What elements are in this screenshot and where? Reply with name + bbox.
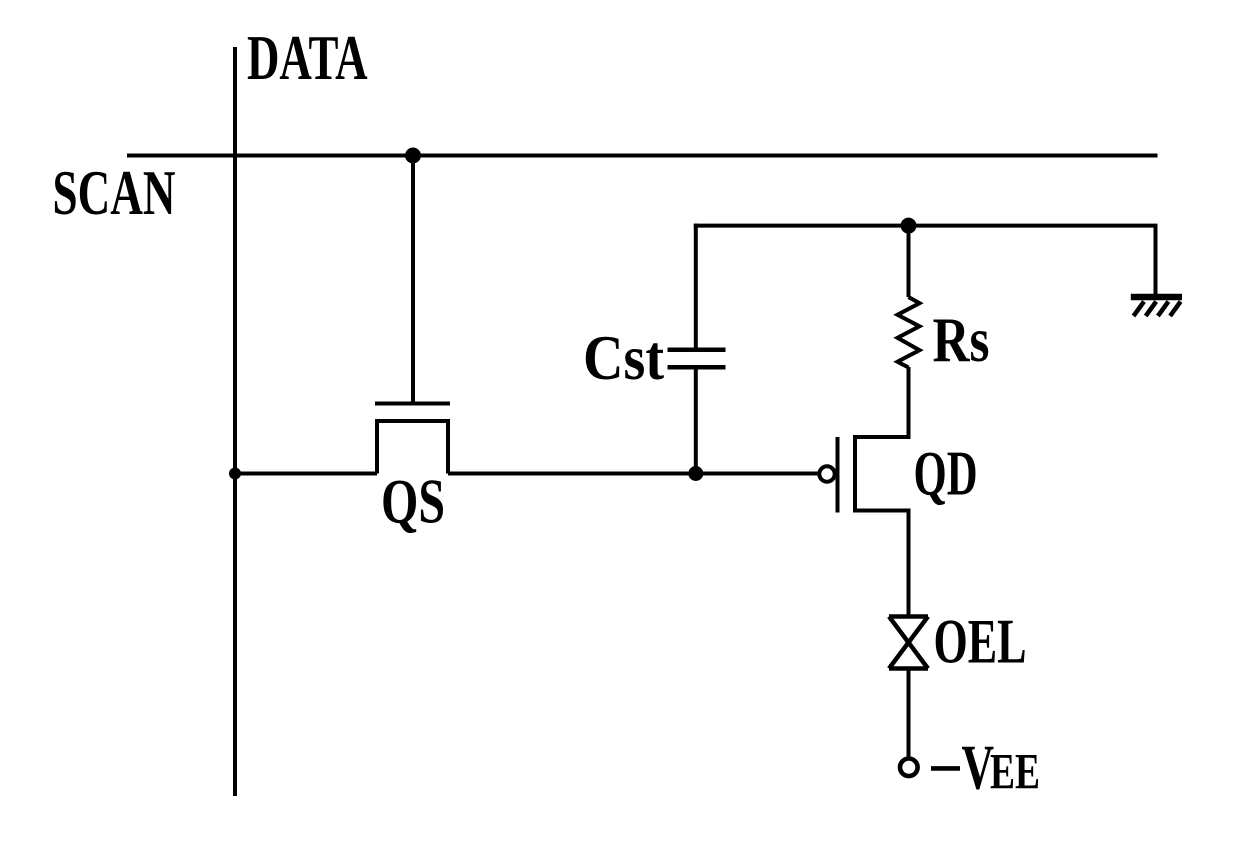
wire SCAN line (horizontal) xyxy=(127,154,1158,158)
svg-text:Rs: Rs xyxy=(933,305,990,375)
terminal -VEE (open circle) xyxy=(900,759,918,777)
wire QD source to OEL xyxy=(907,511,911,617)
svg-text:EE: EE xyxy=(990,745,1040,801)
wire Cst bottom lead xyxy=(694,367,698,473)
transistor QS xyxy=(375,404,450,474)
svg-text:QS: QS xyxy=(381,467,445,537)
label -VEE xyxy=(931,732,1040,803)
svg-text:QD: QD xyxy=(914,439,978,509)
wire QS gate lead xyxy=(411,156,415,402)
svg-text:OEL: OEL xyxy=(934,607,1027,677)
wire QS drain to storage node xyxy=(448,472,696,476)
junction: QS source on DATA line xyxy=(229,468,241,480)
wire Cst top lead xyxy=(694,224,698,350)
svg-text:SCAN: SCAN xyxy=(53,158,176,228)
wire Rs bottom lead to QD drain xyxy=(907,367,911,439)
wire Rs top lead xyxy=(907,226,911,297)
junction: Rs top on rail xyxy=(901,218,917,234)
junction: QS gate tap on SCAN line xyxy=(405,148,421,164)
transistor QD xyxy=(819,437,910,513)
wire DATA line (vertical) xyxy=(233,47,237,796)
svg-text:DATA: DATA xyxy=(247,23,368,93)
svg-text:Cst: Cst xyxy=(583,323,664,393)
wire rail corner down to ground xyxy=(1154,226,1158,295)
wire QS source to DATA line xyxy=(235,472,377,476)
diode OEL (OLED element) xyxy=(889,617,928,669)
wire OEL cathode to terminal xyxy=(907,669,911,758)
capacitor Cst xyxy=(668,350,726,368)
ground symbol xyxy=(1131,297,1182,316)
wire storage node to QD gate xyxy=(696,472,820,476)
junction: storage node at Cst bottom xyxy=(688,466,703,481)
resistor Rs xyxy=(898,297,920,368)
wire top rail (Cst to ground corner) xyxy=(694,224,1158,228)
